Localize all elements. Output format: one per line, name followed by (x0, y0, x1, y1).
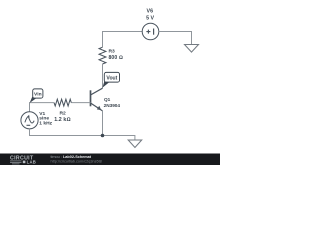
voltage source V6 (142, 23, 159, 40)
svg-text:Q1: Q1 (104, 97, 111, 102)
svg-text:R3: R3 (109, 49, 116, 55)
node Vin flag (30, 89, 43, 103)
junction dot (101, 134, 105, 138)
wire Vin corner to R2 (30, 103, 55, 112)
svg-text:5 V: 5 V (146, 15, 154, 21)
svg-text:1 kHz: 1 kHz (39, 121, 52, 127)
svg-text:Vin: Vin (34, 92, 42, 98)
emitter arrow (97, 106, 101, 110)
resistor R3 (99, 47, 106, 64)
wire base (71, 102, 90, 104)
resistor R2 (54, 99, 71, 106)
voltage source V1 (21, 112, 38, 129)
logo LAB (23, 161, 26, 164)
transistor Q1 (91, 88, 103, 111)
wire V1 bottom to rail (30, 129, 135, 140)
svg-text:800 Ω: 800 Ω (109, 55, 123, 61)
svg-text:V6: V6 (147, 9, 154, 15)
logo waveform bars (10, 161, 22, 164)
ground G2 bottom (128, 140, 142, 148)
svg-text:R2: R2 (60, 111, 67, 117)
svg-text:Vout: Vout (106, 76, 117, 82)
sine arrow tip (27, 115, 30, 118)
ground G1 top right (185, 45, 199, 53)
wire emitter to bottom rail (102, 111, 104, 136)
svg-text:1.2 kΩ: 1.2 kΩ (54, 117, 70, 123)
wire V6 to ground corner (159, 32, 192, 45)
svg-text:LAB: LAB (27, 160, 37, 165)
svg-text:2N3904: 2N3904 (104, 103, 121, 108)
node Vout flag (103, 72, 120, 87)
svg-text:http://circuitlab.com/c2q3nz6t: http://circuitlab.com/c2q3nz6t8 (51, 159, 102, 163)
banner background (0, 154, 220, 166)
wire top-left corner from rail to V6 (103, 32, 143, 48)
wire R3 to collector node (102, 64, 104, 88)
